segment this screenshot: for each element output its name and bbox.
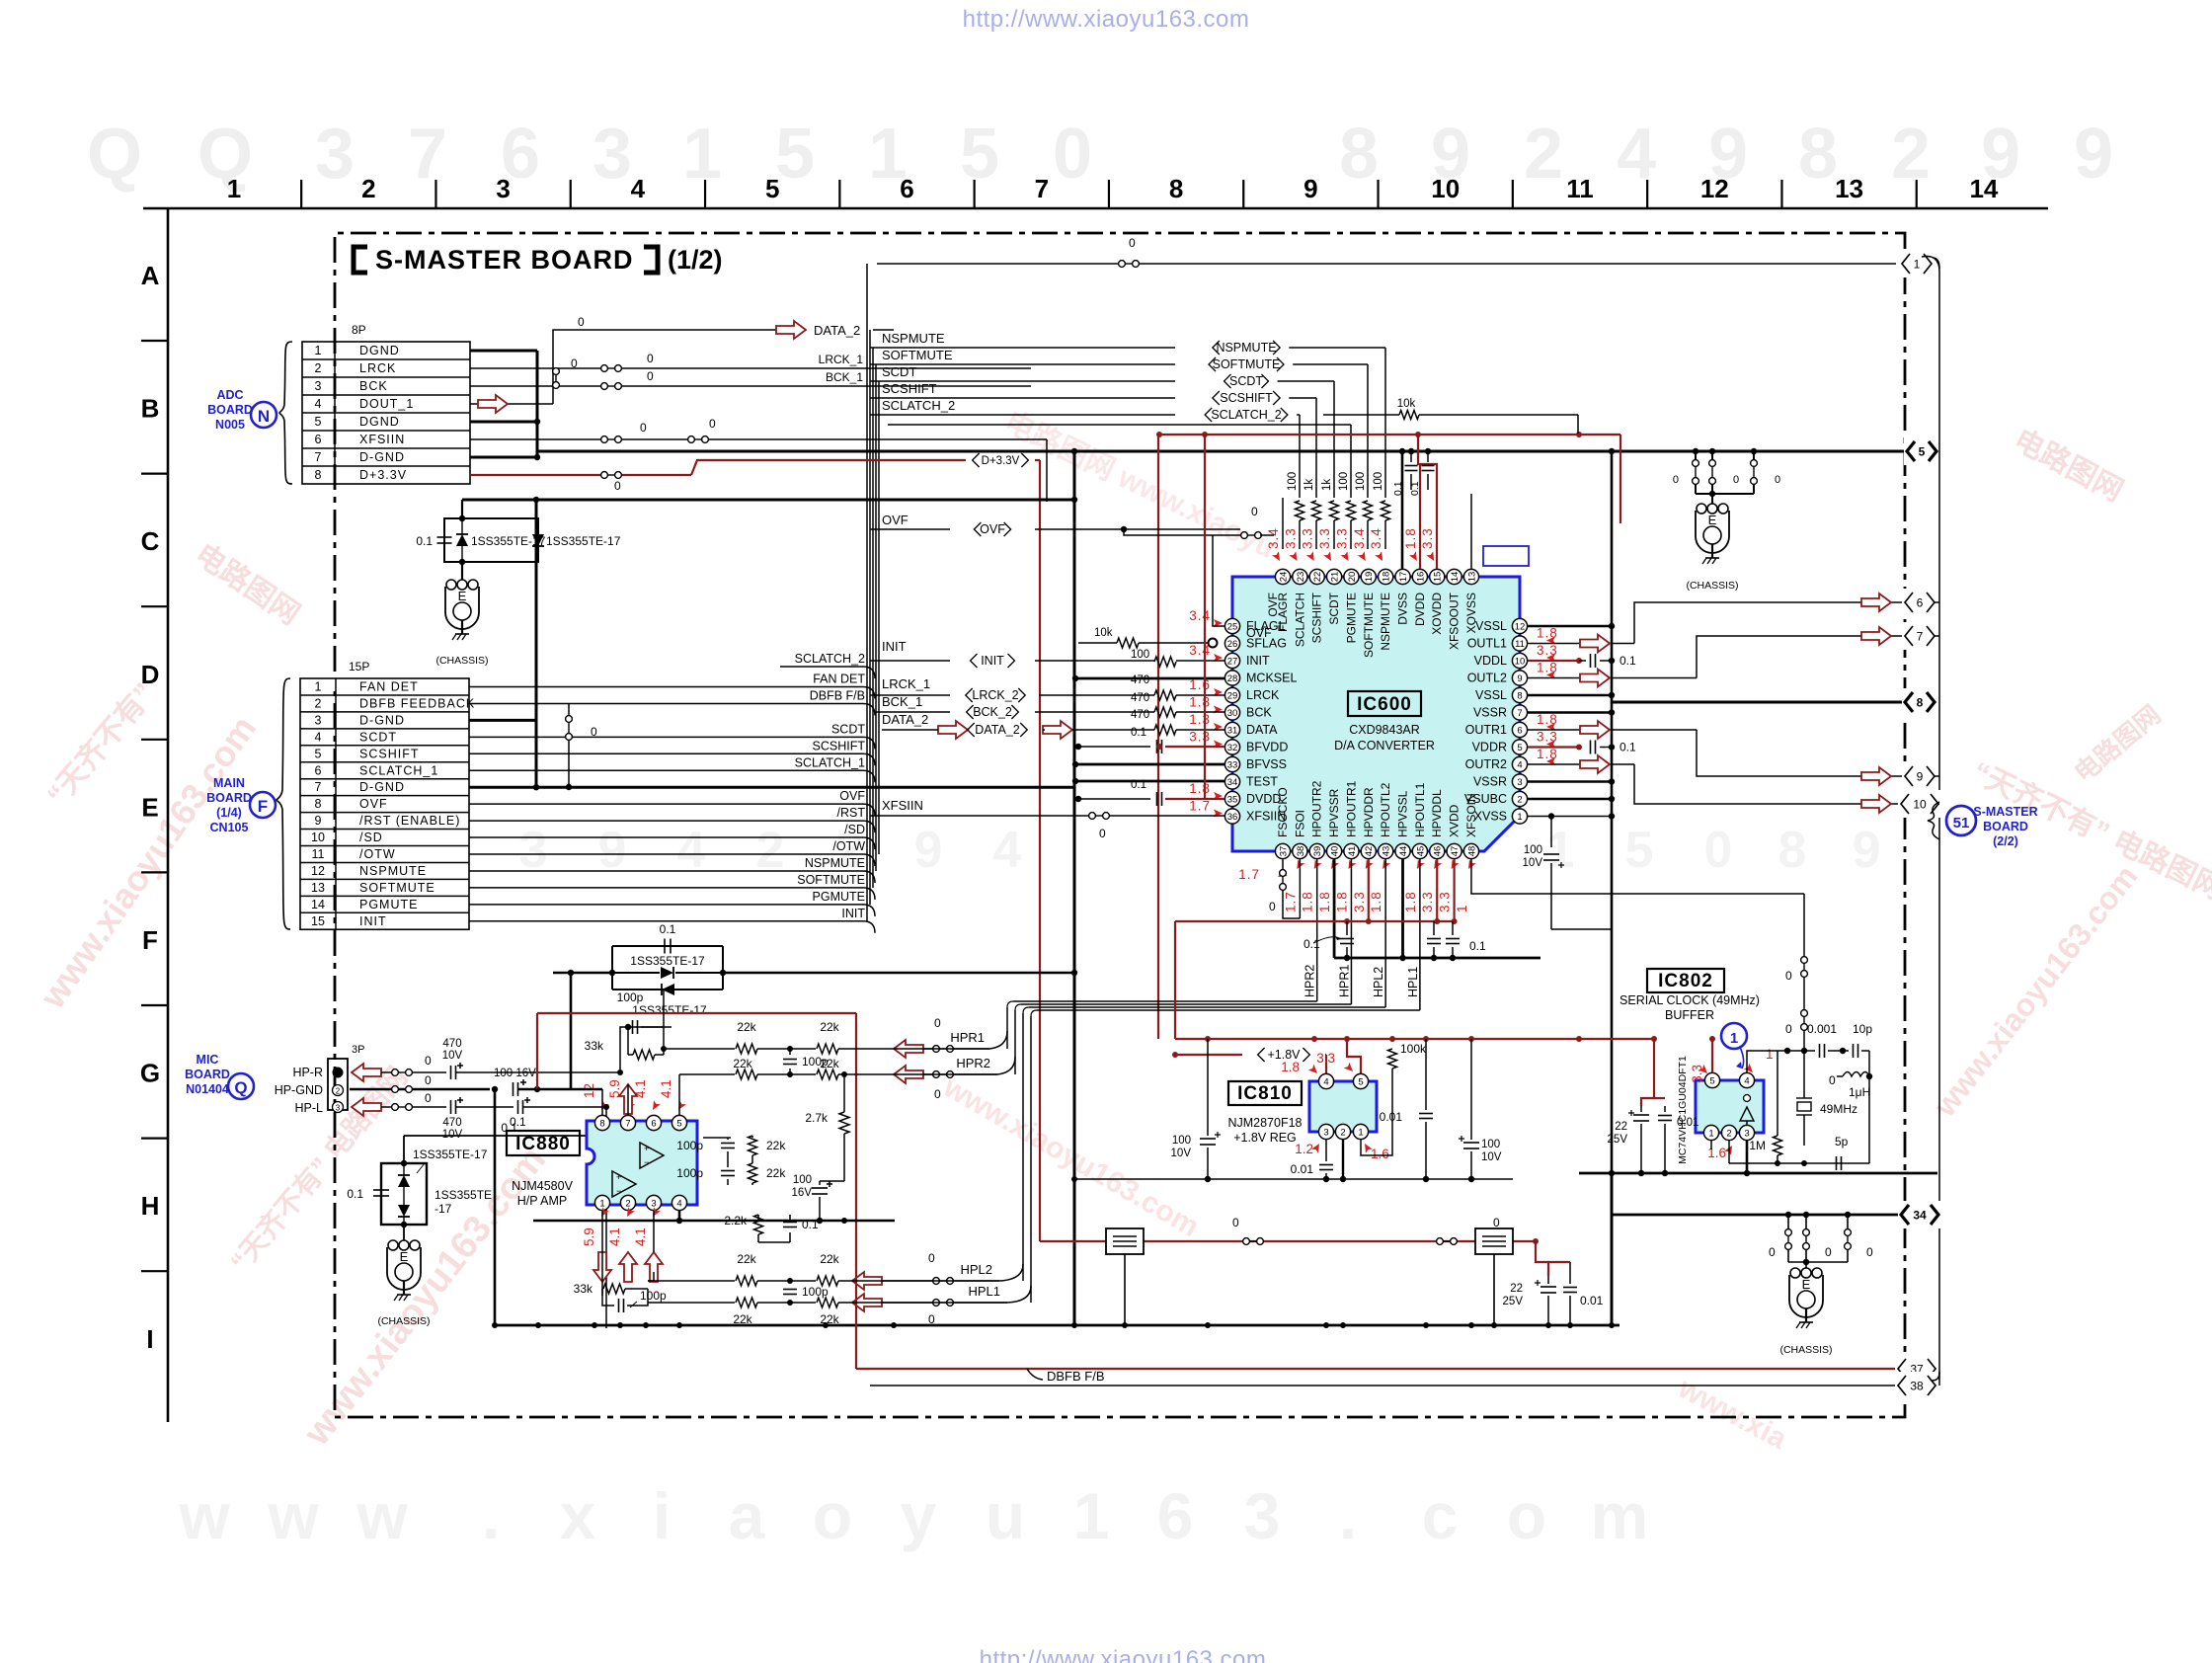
svg-text:6: 6 bbox=[900, 174, 913, 203]
diodes 1SS355TE-17 row C bbox=[461, 500, 463, 518]
svg-text:4: 4 bbox=[676, 1198, 681, 1209]
svg-text:1k: 1k bbox=[1303, 479, 1315, 491]
svg-text:1.7: 1.7 bbox=[1238, 867, 1260, 882]
svg-text:19: 19 bbox=[1364, 572, 1375, 583]
svg-text:0: 0 bbox=[934, 1087, 941, 1101]
svg-text:9: 9 bbox=[315, 814, 322, 828]
svg-text:G: G bbox=[140, 1059, 160, 1088]
svg-text:DBFB F/B: DBFB F/B bbox=[810, 688, 865, 702]
svg-text:1.8: 1.8 bbox=[1334, 891, 1349, 912]
resistor bbox=[749, 1163, 757, 1183]
svg-text:OVF: OVF bbox=[1266, 593, 1280, 617]
svg-text:0: 0 bbox=[1269, 900, 1276, 913]
svg-text:22k: 22k bbox=[766, 1139, 786, 1152]
svg-text:32: 32 bbox=[1227, 743, 1238, 753]
svg-text:w: w bbox=[355, 1479, 408, 1552]
svg-text:/RST (ENABLE): /RST (ENABLE) bbox=[359, 814, 460, 828]
svg-text:SCSHIFT: SCSHIFT bbox=[1220, 391, 1273, 405]
svg-text:D-GND: D-GND bbox=[359, 713, 405, 727]
svg-text:F: F bbox=[142, 925, 158, 955]
svg-text:o: o bbox=[813, 1479, 852, 1552]
svg-text:22k: 22k bbox=[820, 1312, 839, 1326]
svg-text:8P: 8P bbox=[352, 323, 366, 337]
svg-text:D+3.3V: D+3.3V bbox=[359, 468, 407, 482]
svg-text:2.7k: 2.7k bbox=[805, 1111, 829, 1125]
pin 2 bbox=[1721, 1125, 1736, 1140]
pin 46 bbox=[1430, 843, 1445, 858]
capacitor bbox=[618, 1299, 620, 1312]
svg-text:0.1: 0.1 bbox=[1131, 779, 1146, 791]
signal flow arrow bbox=[619, 1084, 637, 1114]
svg-text:N01404: N01404 bbox=[186, 1082, 229, 1096]
signal flow arrow bbox=[352, 1064, 381, 1081]
svg-text:8: 8 bbox=[599, 1118, 604, 1129]
svg-text:7: 7 bbox=[1917, 630, 1924, 644]
svg-text:BOARD: BOARD bbox=[207, 403, 253, 417]
svg-text:100: 100 bbox=[1373, 472, 1384, 491]
svg-text:0: 0 bbox=[1129, 236, 1136, 250]
svg-text:3.3: 3.3 bbox=[1537, 643, 1558, 658]
capacitor bbox=[450, 1066, 452, 1079]
svg-text:4: 4 bbox=[315, 397, 322, 411]
svg-text:B: B bbox=[141, 394, 160, 424]
svg-text:o: o bbox=[1507, 1479, 1546, 1552]
pin 19 bbox=[1361, 569, 1376, 584]
svg-text:0: 0 bbox=[1251, 505, 1258, 518]
svg-text:HPL1: HPL1 bbox=[1406, 967, 1420, 997]
svg-text:HPVDDL: HPVDDL bbox=[1430, 789, 1444, 837]
svg-text:1.8: 1.8 bbox=[1537, 626, 1558, 641]
svg-text:A: A bbox=[141, 261, 160, 290]
signal flow arrow bbox=[1861, 594, 1891, 611]
svg-text:XOVDD: XOVDD bbox=[1430, 593, 1444, 635]
svg-text:SOFTMUTE: SOFTMUTE bbox=[1362, 593, 1376, 658]
svg-text:IC810: IC810 bbox=[1237, 1083, 1293, 1104]
svg-text:5: 5 bbox=[1517, 743, 1522, 753]
svg-text:2: 2 bbox=[336, 1087, 341, 1096]
svg-text:100p: 100p bbox=[802, 1285, 829, 1299]
svg-text:10V: 10V bbox=[1523, 857, 1543, 869]
resistor bbox=[817, 1044, 838, 1054]
svg-text:SCDT: SCDT bbox=[1229, 374, 1263, 388]
svg-text:2: 2 bbox=[1524, 115, 1563, 194]
svg-text:3: 3 bbox=[315, 115, 355, 194]
svg-text:100p: 100p bbox=[640, 1289, 667, 1303]
red 1.8V rail bbox=[1175, 1038, 1654, 1040]
capacitor bbox=[1819, 1044, 1821, 1058]
svg-text:HPOUTR1: HPOUTR1 bbox=[1344, 780, 1358, 837]
svg-text:ADC: ADC bbox=[216, 388, 243, 402]
svg-text:16: 16 bbox=[1415, 572, 1426, 583]
pin 8 bbox=[594, 1115, 609, 1130]
svg-text:XFSOOUT: XFSOOUT bbox=[1448, 592, 1461, 650]
pin 25 bbox=[1224, 618, 1239, 633]
bold 984 line bbox=[1071, 970, 1077, 976]
wire vertical bus bbox=[866, 264, 868, 921]
svg-text:470: 470 bbox=[1131, 674, 1149, 686]
signal flow arrow bbox=[852, 1294, 882, 1311]
svg-text:0.1: 0.1 bbox=[1619, 741, 1636, 754]
jumper 0ohm bbox=[933, 1278, 940, 1285]
capacitor bbox=[1633, 1114, 1649, 1116]
svg-text:9: 9 bbox=[1853, 822, 1881, 879]
svg-text:12: 12 bbox=[311, 864, 325, 878]
jumper 0ohm bbox=[1845, 1229, 1852, 1236]
svg-text:0.01: 0.01 bbox=[1677, 1117, 1698, 1129]
svg-text:18: 18 bbox=[1382, 572, 1392, 583]
svg-text:0: 0 bbox=[934, 1016, 941, 1030]
svg-text:/SD: /SD bbox=[359, 831, 383, 844]
signal flow arrow bbox=[1861, 627, 1891, 645]
svg-text:SCDT: SCDT bbox=[359, 730, 397, 744]
ref 51 S-MASTER BOARD 2/2 bbox=[1928, 802, 1939, 839]
svg-text:HPOUTR2: HPOUTR2 bbox=[1310, 780, 1324, 837]
svg-text:SOFTMUTE: SOFTMUTE bbox=[882, 348, 953, 362]
pin 47 bbox=[1447, 843, 1461, 858]
capacitor bbox=[1427, 938, 1441, 940]
svg-text:3.3: 3.3 bbox=[1690, 1065, 1704, 1083]
svg-text:0.1: 0.1 bbox=[1469, 939, 1486, 953]
svg-text:1.8: 1.8 bbox=[1537, 712, 1558, 727]
pin 3 bbox=[646, 1195, 661, 1210]
resistor bbox=[1330, 501, 1339, 520]
jumpers above chassis row C right bbox=[1695, 451, 1697, 459]
capacitor bbox=[783, 1222, 797, 1224]
svg-text:HPR2: HPR2 bbox=[956, 1056, 990, 1070]
capacitor bbox=[1419, 1113, 1433, 1115]
svg-text:25V: 25V bbox=[1503, 1296, 1524, 1307]
ground bus bottom bbox=[495, 1324, 1619, 1327]
svg-text:OVF: OVF bbox=[359, 797, 388, 811]
svg-text:22k: 22k bbox=[733, 1312, 752, 1326]
svg-text:BCK_1: BCK_1 bbox=[882, 694, 922, 709]
svg-text:N: N bbox=[258, 407, 270, 426]
svg-text:100: 100 bbox=[1338, 472, 1350, 491]
jumper 0ohm bbox=[933, 1071, 940, 1078]
jumper 0ohm bbox=[1241, 532, 1248, 539]
pin 7 bbox=[620, 1115, 635, 1130]
svg-text:i: i bbox=[653, 1479, 671, 1552]
pin 4 bbox=[1739, 1072, 1754, 1087]
svg-text:SOFTMUTE: SOFTMUTE bbox=[1213, 357, 1281, 371]
svg-text:100: 100 bbox=[1481, 1139, 1500, 1150]
page reference 9 bbox=[1902, 762, 1937, 790]
svg-text:16V: 16V bbox=[792, 1187, 813, 1199]
resistor bbox=[1154, 725, 1176, 735]
svg-text:9: 9 bbox=[2074, 115, 2113, 194]
svg-text:SCLATCH_1: SCLATCH_1 bbox=[359, 763, 438, 777]
svg-text:2: 2 bbox=[1517, 794, 1522, 805]
svg-text:7: 7 bbox=[625, 1118, 630, 1129]
svg-text:100: 100 bbox=[1355, 472, 1367, 491]
svg-text:51: 51 bbox=[1953, 815, 1970, 831]
pin 27 bbox=[1224, 653, 1239, 668]
svg-text:3.3: 3.3 bbox=[1352, 891, 1367, 912]
resistor bbox=[1154, 690, 1176, 700]
diode bbox=[398, 1175, 410, 1187]
svg-text:0: 0 bbox=[1785, 1022, 1792, 1036]
connector ADC BOARD 8P table bbox=[302, 342, 470, 484]
svg-text:9: 9 bbox=[1517, 673, 1522, 684]
svg-text:8: 8 bbox=[315, 797, 322, 811]
svg-text:1: 1 bbox=[682, 115, 722, 194]
S-MASTER board dash-dot border bbox=[335, 233, 1905, 1417]
jumper 0ohm bbox=[1709, 460, 1716, 467]
svg-text:NSPMUTE: NSPMUTE bbox=[805, 856, 865, 870]
svg-text:0: 0 bbox=[928, 1251, 935, 1265]
svg-text:1SS355TE-17: 1SS355TE-17 bbox=[632, 1003, 707, 1017]
svg-text:33k: 33k bbox=[574, 1282, 593, 1296]
pin 2 bbox=[1512, 791, 1527, 806]
svg-text:0: 0 bbox=[591, 725, 597, 739]
svg-text:NSPMUTE: NSPMUTE bbox=[1216, 341, 1276, 355]
svg-text:SCSHIFT: SCSHIFT bbox=[1310, 592, 1324, 643]
pin 3 bbox=[1318, 1124, 1333, 1139]
signal flow arrow bbox=[478, 395, 508, 413]
signal flow arrow bbox=[776, 321, 806, 339]
svg-text:22k: 22k bbox=[737, 1020, 756, 1034]
capacitor bbox=[1200, 1138, 1216, 1140]
svg-text:SCDT: SCDT bbox=[1327, 592, 1341, 624]
jumper 0ohm bbox=[1751, 460, 1758, 467]
pin 10 bbox=[1512, 653, 1527, 668]
svg-text:7: 7 bbox=[315, 780, 322, 794]
svg-text:27: 27 bbox=[1227, 656, 1238, 667]
svg-text:7: 7 bbox=[408, 115, 447, 194]
svg-text:Q: Q bbox=[234, 1078, 247, 1097]
svg-text:43: 43 bbox=[1382, 846, 1392, 857]
svg-text:3.3: 3.3 bbox=[1317, 527, 1332, 549]
svg-text:4: 4 bbox=[631, 174, 646, 203]
pin 43 bbox=[1379, 843, 1393, 858]
svg-text:1.7: 1.7 bbox=[1189, 799, 1211, 814]
signal flow arrow bbox=[1861, 767, 1891, 785]
pin 18 bbox=[1379, 569, 1393, 584]
svg-text:20: 20 bbox=[1347, 572, 1358, 583]
jumper 0ohm bbox=[566, 716, 573, 723]
signal flow arrow bbox=[938, 721, 968, 739]
resistor bbox=[736, 1276, 757, 1286]
pin 45 bbox=[1412, 843, 1427, 858]
svg-text:LRCK: LRCK bbox=[1246, 688, 1280, 702]
svg-text:1SS355TE-17: 1SS355TE-17 bbox=[630, 954, 705, 968]
svg-text:.: . bbox=[1339, 1479, 1357, 1552]
capacitor bbox=[373, 1189, 389, 1191]
pin 33 bbox=[1224, 756, 1239, 771]
IC600 bottom wiring bbox=[1282, 859, 1284, 869]
svg-text:OUTL1: OUTL1 bbox=[1467, 637, 1507, 651]
jumper 0ohm bbox=[553, 368, 560, 375]
ground chassis symbol bbox=[1790, 1268, 1800, 1278]
svg-text:1: 1 bbox=[315, 344, 322, 357]
svg-text:/SD: /SD bbox=[844, 823, 865, 836]
svg-text:3: 3 bbox=[1244, 1479, 1281, 1552]
ground chassis symbol bbox=[446, 580, 456, 590]
svg-text:E: E bbox=[458, 589, 467, 603]
svg-text:29: 29 bbox=[1227, 690, 1238, 701]
pin 15 bbox=[1430, 569, 1445, 584]
svg-text:.: . bbox=[482, 1479, 500, 1552]
jumper 0ohm bbox=[688, 436, 695, 443]
svg-text:w: w bbox=[267, 1479, 319, 1552]
svg-text:100k: 100k bbox=[1400, 1042, 1427, 1056]
svg-text:9: 9 bbox=[1303, 174, 1317, 203]
svg-text:OVF: OVF bbox=[980, 522, 1005, 536]
capacitor bbox=[1540, 1286, 1556, 1288]
svg-text:5: 5 bbox=[775, 115, 815, 194]
svg-text:12: 12 bbox=[1515, 621, 1526, 632]
svg-text:D: D bbox=[141, 660, 160, 689]
svg-text:17: 17 bbox=[1398, 572, 1409, 583]
pin 26 bbox=[1224, 636, 1239, 651]
svg-text:33k: 33k bbox=[585, 1039, 604, 1053]
capacitor bbox=[1156, 740, 1158, 753]
D-GND bold rail to ref5 bbox=[537, 450, 1906, 453]
svg-text:DVSS: DVSS bbox=[1396, 593, 1410, 625]
jumper 0ohm bbox=[1801, 1010, 1808, 1017]
svg-text:SCDT: SCDT bbox=[882, 364, 916, 379]
svg-text:38: 38 bbox=[1910, 1380, 1924, 1393]
svg-text:c: c bbox=[1422, 1479, 1459, 1552]
svg-text:1: 1 bbox=[1766, 1047, 1774, 1062]
svg-text:OUTR1: OUTR1 bbox=[1465, 723, 1507, 737]
svg-text:24: 24 bbox=[1278, 572, 1289, 583]
IC600 label bbox=[1348, 691, 1421, 716]
op-chip IC880 NJM4580V bbox=[507, 1131, 580, 1155]
svg-text:8: 8 bbox=[1169, 174, 1183, 203]
svg-text:3.4: 3.4 bbox=[1352, 527, 1367, 549]
svg-text:3.4: 3.4 bbox=[1189, 643, 1211, 658]
svg-text:0: 0 bbox=[1775, 474, 1780, 486]
svg-text:15: 15 bbox=[311, 914, 325, 928]
resistor bbox=[817, 1276, 838, 1286]
svg-text:0.1: 0.1 bbox=[347, 1187, 363, 1201]
pin 5 bbox=[1353, 1073, 1368, 1088]
pin 1 bbox=[1703, 1125, 1718, 1140]
svg-text:1SS355TE-17: 1SS355TE-17 bbox=[546, 534, 621, 548]
svg-text:+1.8V REG: +1.8V REG bbox=[1233, 1131, 1297, 1145]
jumper 0ohm bbox=[1803, 1229, 1810, 1236]
svg-text:MIC: MIC bbox=[197, 1053, 219, 1067]
svg-text:LRCK_1: LRCK_1 bbox=[819, 353, 864, 366]
svg-text:0.1: 0.1 bbox=[501, 1121, 517, 1135]
svg-text:DVDD: DVDD bbox=[1413, 593, 1427, 626]
svg-text:5: 5 bbox=[960, 115, 999, 194]
svg-text:1.8: 1.8 bbox=[1189, 695, 1211, 710]
svg-text:5: 5 bbox=[676, 1118, 681, 1129]
svg-text:13: 13 bbox=[311, 881, 325, 895]
capacitor bbox=[812, 1187, 828, 1189]
svg-text:HPR2: HPR2 bbox=[1303, 965, 1317, 997]
jumper 0ohm bbox=[1437, 1238, 1444, 1245]
svg-text:XFSIIN: XFSIIN bbox=[1246, 810, 1286, 824]
svg-text:3: 3 bbox=[1744, 1128, 1749, 1139]
svg-text:DGND: DGND bbox=[359, 415, 400, 429]
svg-text:SCLATCH_2: SCLATCH_2 bbox=[795, 652, 865, 666]
svg-text:1.3: 1.3 bbox=[1189, 712, 1211, 727]
svg-text:1: 1 bbox=[1517, 812, 1522, 823]
capacitor bbox=[1590, 654, 1592, 668]
svg-text:0: 0 bbox=[647, 369, 654, 383]
svg-text:XFSIIN: XFSIIN bbox=[882, 798, 923, 813]
svg-text:3.4: 3.4 bbox=[1369, 527, 1383, 549]
svg-text:SERIAL CLOCK (49MHz): SERIAL CLOCK (49MHz) bbox=[1619, 993, 1760, 1007]
jumper 0ohm bbox=[601, 436, 608, 443]
svg-text:DATA: DATA bbox=[1246, 723, 1278, 737]
svg-text:8: 8 bbox=[1917, 696, 1924, 710]
connector MAIN BOARD 15P table bbox=[300, 678, 469, 929]
svg-text:4.1: 4.1 bbox=[607, 1227, 622, 1246]
svg-text:100: 100 bbox=[1172, 1135, 1191, 1147]
svg-text:4: 4 bbox=[993, 822, 1022, 879]
capacitor bbox=[1658, 1115, 1672, 1117]
svg-text:1.6: 1.6 bbox=[1371, 1147, 1389, 1161]
svg-text:4.1: 4.1 bbox=[633, 1227, 648, 1246]
jumper 0ohm bbox=[392, 1069, 399, 1076]
diode bbox=[456, 534, 468, 546]
jumper 0ohm bbox=[601, 365, 608, 372]
capacitor bbox=[517, 1100, 519, 1114]
svg-text:E: E bbox=[400, 1249, 409, 1264]
svg-text:OUTL2: OUTL2 bbox=[1467, 672, 1507, 685]
svg-text:10k: 10k bbox=[1094, 627, 1113, 639]
svg-text:22: 22 bbox=[1510, 1283, 1523, 1295]
svg-text:0: 0 bbox=[1673, 474, 1679, 486]
svg-text:44: 44 bbox=[1398, 846, 1409, 857]
svg-text:BCK_2: BCK_2 bbox=[973, 705, 1012, 719]
svg-text:XVDD: XVDD bbox=[1448, 804, 1461, 837]
svg-text:3.3: 3.3 bbox=[1301, 527, 1315, 549]
svg-text:1.2: 1.2 bbox=[1295, 1142, 1313, 1156]
pin 1 bbox=[594, 1195, 609, 1210]
svg-text:0.1: 0.1 bbox=[1392, 481, 1404, 496]
svg-text:HP-R: HP-R bbox=[292, 1066, 323, 1079]
svg-text:10: 10 bbox=[311, 831, 325, 844]
svg-text:HPL2: HPL2 bbox=[1372, 967, 1385, 997]
svg-text:x: x bbox=[560, 1479, 596, 1552]
svg-text:HPR1: HPR1 bbox=[1337, 965, 1351, 997]
capacitor bbox=[1853, 1044, 1855, 1058]
svg-text:1.8: 1.8 bbox=[1403, 527, 1418, 549]
signal flow arrow bbox=[619, 1252, 637, 1282]
svg-text:H: H bbox=[141, 1191, 160, 1221]
svg-text:HPR1: HPR1 bbox=[950, 1030, 985, 1045]
ref corner curves bbox=[1934, 258, 1939, 269]
pin 9 bbox=[1512, 671, 1527, 685]
svg-text:3: 3 bbox=[315, 713, 322, 727]
resistor bbox=[1364, 501, 1373, 520]
svg-text:MCKSEL: MCKSEL bbox=[1246, 672, 1297, 685]
svg-text:3: 3 bbox=[336, 1104, 341, 1113]
svg-text:/OTW: /OTW bbox=[359, 847, 396, 861]
pin 1 bbox=[1512, 809, 1527, 824]
pin 21 bbox=[1326, 569, 1341, 584]
svg-text:470: 470 bbox=[442, 1117, 461, 1129]
svg-text:N005: N005 bbox=[215, 418, 245, 432]
diode bbox=[532, 534, 544, 546]
svg-text:1k: 1k bbox=[1321, 479, 1333, 491]
svg-text:1μH: 1μH bbox=[1849, 1085, 1870, 1099]
svg-text:2: 2 bbox=[1340, 1127, 1345, 1138]
svg-text:9: 9 bbox=[914, 822, 943, 879]
capacitor bbox=[1319, 1164, 1333, 1166]
svg-text:3.3: 3.3 bbox=[1420, 891, 1435, 912]
svg-text:47: 47 bbox=[1450, 846, 1461, 857]
svg-text:4: 4 bbox=[1617, 115, 1656, 194]
svg-text:VDDL: VDDL bbox=[1474, 654, 1507, 668]
D+3.3V red wire bbox=[470, 474, 600, 476]
capacitor bbox=[721, 1170, 735, 1172]
